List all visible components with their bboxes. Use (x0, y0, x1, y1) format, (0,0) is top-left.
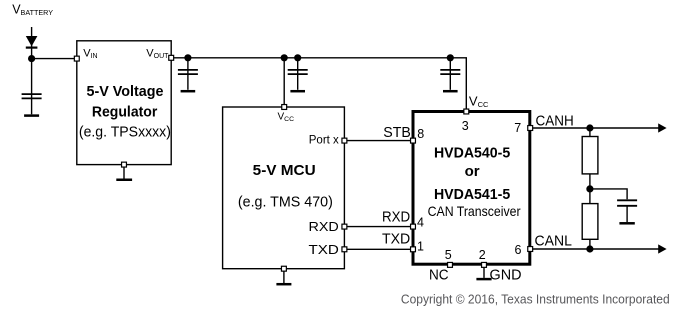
svg-text:HVDA540-5: HVDA540-5 (434, 144, 510, 161)
svg-text:GND: GND (490, 266, 522, 283)
svg-text:3: 3 (462, 119, 469, 133)
svg-text:NC: NC (429, 266, 449, 283)
svg-text:Port x: Port x (309, 134, 339, 146)
svg-text:RXD: RXD (309, 219, 339, 234)
svg-text:(e.g. TMS 470): (e.g. TMS 470) (238, 194, 333, 210)
svg-text:TXD: TXD (309, 242, 339, 257)
svg-text:1: 1 (417, 239, 424, 253)
svg-text:RXD: RXD (382, 209, 410, 226)
svg-text:CANL: CANL (535, 233, 572, 250)
svg-text:STB: STB (383, 124, 411, 141)
svg-text:5-V Voltage: 5-V Voltage (87, 83, 164, 100)
svg-text:8: 8 (417, 127, 424, 141)
svg-text:4: 4 (417, 216, 424, 230)
svg-text:CANH: CANH (536, 113, 574, 130)
svg-text:CAN Transceiver: CAN Transceiver (428, 203, 521, 219)
svg-text:(e.g. TPSxxxx): (e.g. TPSxxxx) (79, 124, 171, 140)
svg-text:HVDA541-5: HVDA541-5 (434, 186, 510, 203)
svg-text:5: 5 (445, 248, 452, 262)
svg-text:5-V MCU: 5-V MCU (253, 162, 316, 179)
svg-text:2: 2 (479, 248, 486, 262)
svg-text:TXD: TXD (382, 231, 410, 248)
svg-text:or: or (465, 163, 480, 180)
svg-text:6: 6 (515, 243, 522, 257)
svg-text:Copyright © 2016, Texas Instru: Copyright © 2016, Texas Instruments Inco… (401, 292, 670, 306)
svg-text:Regulator: Regulator (92, 104, 158, 121)
svg-text:7: 7 (514, 121, 521, 135)
